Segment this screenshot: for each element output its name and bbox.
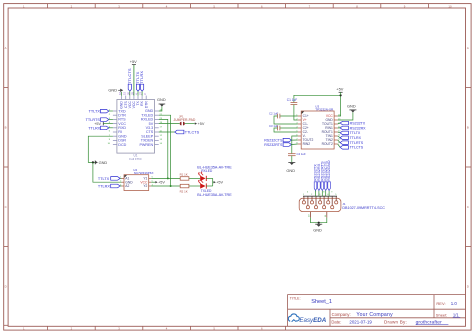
capacitor C4 + ground — [286, 136, 306, 173]
junction dots — [167, 177, 169, 179]
row1 wire (RXLED) — [151, 177, 180, 179]
svg-text:DB1027-09MRRTT4-SCC: DB1027-09MRRTT4-SCC — [342, 206, 385, 210]
svg-text:10: 10 — [448, 4, 452, 8]
svg-text:D: D — [5, 285, 7, 289]
svg-text:GND: GND — [108, 88, 117, 93]
wire U1 GND to ground — [88, 136, 113, 162]
net flag RS232TX (vertical) — [313, 164, 318, 191]
svg-text:PWREN: PWREN — [139, 143, 153, 147]
net flag TTLRX (to U2 A2) — [98, 184, 122, 188]
connector J1 body — [299, 198, 385, 211]
svg-text:Company:: Company: — [332, 312, 351, 317]
junction — [92, 161, 94, 163]
svg-text:TTLTX: TTLTX — [89, 110, 101, 114]
svg-text:TTLCTS: TTLCTS — [127, 68, 132, 84]
join + +5V — [213, 178, 224, 186]
svg-text:Your Company: Your Company — [356, 312, 393, 318]
net flag RS232RX — [340, 126, 366, 130]
svg-text:D: D — [467, 285, 469, 289]
svg-text:A2: A2 — [125, 184, 129, 188]
DB9 vertical net flags — [316, 190, 330, 196]
connector pin stubs — [304, 196, 336, 205]
U3 right net flags — [338, 123, 340, 147]
capacitor C3 — [269, 124, 298, 132]
svg-text:TTLRX: TTLRX — [139, 71, 144, 84]
svg-text:Date:: Date: — [331, 319, 341, 324]
capacitor C2 — [269, 112, 298, 124]
svg-text:RS232CTS: RS232CTS — [264, 138, 283, 142]
svg-text:Sheet:: Sheet: — [436, 313, 448, 318]
svg-text:B: B — [5, 126, 7, 130]
svg-text:TTLRX: TTLRX — [88, 126, 100, 130]
svg-text:RXLED: RXLED — [201, 169, 213, 173]
shield pins 10/11 — [309, 212, 327, 233]
svg-text:Y2: Y2 — [143, 184, 147, 188]
svg-text:1/1: 1/1 — [453, 313, 459, 318]
svg-text:C4 1uF: C4 1uF — [297, 152, 306, 156]
net flag TTLTX (left) — [89, 109, 113, 113]
net flag TTLRTS (left) — [86, 118, 113, 122]
net flag TTLRX — [340, 136, 361, 140]
svg-text:+5V: +5V — [158, 181, 165, 185]
wire RXLED down — [159, 119, 168, 178]
svg-text:TTLTX: TTLTX — [350, 131, 361, 135]
net flag RS232CTS — [264, 138, 297, 142]
svg-text:REV:: REV: — [436, 301, 445, 306]
U1 left pin stubs — [113, 111, 117, 145]
svg-text:DCD: DCD — [118, 143, 126, 147]
svg-text:2021-07-19: 2021-07-19 — [349, 319, 372, 324]
net flag TTLRTS — [340, 141, 364, 145]
GND at U1 right pin1 — [157, 97, 166, 111]
resistor R2 — [180, 184, 189, 193]
svg-text:ROUT2: ROUT2 — [322, 142, 333, 146]
ground symbol left — [95, 160, 107, 165]
net flag RS232CTS (vertical) — [323, 161, 328, 190]
frame ticks left/right — [4, 88, 471, 326]
svg-text:C: C — [5, 205, 7, 209]
IC U3 — [296, 104, 341, 149]
net flag RS232TX — [340, 121, 366, 125]
+5V at U2 VCC — [151, 181, 165, 185]
net flag RS232RTS (vertical) — [319, 161, 324, 190]
svg-text:B: B — [467, 126, 469, 130]
IC U2 — [120, 168, 153, 191]
IC U1 Full FTDI — [117, 100, 155, 161]
U1 pin names left — [118, 109, 127, 146]
+5V power at U1 VCC left — [94, 122, 113, 126]
net flag TTLRX (top, vertical) — [139, 71, 144, 96]
svg-text:R1 1K: R1 1K — [180, 173, 188, 177]
svg-text:TTLRX: TTLRX — [98, 185, 110, 189]
EasyEDA logo — [288, 314, 326, 324]
wire TXLED down — [159, 115, 171, 186]
pin-end row — [303, 195, 337, 197]
svg-text:GND: GND — [99, 160, 108, 165]
svg-text:NC7WZ16P6X: NC7WZ16P6X — [134, 171, 154, 175]
LED TXLED — [198, 179, 213, 189]
GND at U3 right — [338, 104, 357, 120]
svg-text:RIN2: RIN2 — [303, 142, 311, 146]
svg-text:C: C — [467, 205, 469, 209]
LED RXLED — [198, 171, 213, 181]
svg-text:RS232TX: RS232TX — [350, 121, 366, 125]
title block — [288, 295, 466, 327]
+5V rail to U3 VCC — [294, 86, 344, 116]
svg-text:+5V: +5V — [216, 181, 223, 185]
svg-text:Drawn By:: Drawn By: — [384, 320, 407, 325]
svg-text:C1 1uF: C1 1uF — [287, 98, 298, 102]
svg-text:BL-HUE35A-AV-TRE: BL-HUE35A-AV-TRE — [197, 193, 232, 197]
svg-text:1.0: 1.0 — [451, 301, 458, 306]
net flag RS232RX (vertical) — [316, 163, 321, 190]
svg-text:RS232GND: RS232GND — [326, 160, 331, 181]
svg-text:TTLCTS: TTLCTS — [350, 146, 364, 150]
row2 wire (TXLED) — [151, 185, 180, 187]
net flag TTLTX (to U2 A1) — [98, 177, 122, 181]
svg-text:+5V: +5V — [336, 86, 343, 91]
svg-text:TP3232N-SR: TP3232N-SR — [315, 107, 334, 111]
GND at U1 top-left — [108, 88, 123, 96]
svg-text:A: A — [467, 46, 469, 50]
svg-text:R2 1K: R2 1K — [180, 189, 188, 193]
net flag TTLCTS (top, vertical) — [127, 68, 132, 96]
svg-text:A: A — [5, 46, 7, 50]
wire U2 GND up to ground net — [93, 162, 122, 182]
svg-text:Full FTDI: Full FTDI — [129, 157, 141, 161]
svg-text:GND: GND — [286, 168, 295, 173]
svg-text:TTLRTS: TTLRTS — [350, 141, 364, 145]
net flag GND (vertical) — [326, 160, 331, 190]
+5V power at U1 top — [132, 65, 136, 96]
net flag TTLCTS (right of U1) — [159, 130, 200, 134]
svg-text:DTR: DTR — [144, 101, 148, 109]
svg-text:TITLE:: TITLE: — [290, 297, 301, 301]
net flag TTLTX — [340, 131, 361, 135]
svg-text:RS232RX: RS232RX — [350, 126, 367, 130]
net flag TTLRX (left) — [88, 126, 113, 130]
svg-text:C2 1uF: C2 1uF — [269, 112, 278, 116]
U1 top pin stubs — [122, 96, 147, 100]
svg-text:GND: GND — [157, 97, 166, 102]
svg-text:GND: GND — [313, 228, 322, 233]
svg-text:TTLRX: TTLRX — [350, 136, 362, 140]
svg-text:TTLTX: TTLTX — [98, 177, 110, 181]
net flag RS232RTS — [264, 143, 297, 147]
resistor R1 — [180, 173, 189, 181]
svg-text:EasyEDA: EasyEDA — [299, 317, 326, 324]
svg-text:C3 1uF: C3 1uF — [269, 124, 278, 128]
frame ticks top/bottom — [48, 4, 429, 331]
svg-text:GND: GND — [347, 104, 356, 109]
U1 pin numbers — [118, 91, 147, 95]
svg-text:+5V: +5V — [198, 122, 205, 126]
net flag TTLTX (top, vertical) — [135, 71, 140, 95]
net flag TTLCTS — [340, 146, 364, 150]
U1 pin names right — [139, 109, 153, 147]
U1 pin names top (vertical) — [120, 100, 149, 108]
svg-text:TTLCTS: TTLCTS — [185, 131, 200, 135]
svg-text:RS232RTS: RS232RTS — [264, 143, 283, 147]
jumper pad JP1 on 5V pin — [159, 114, 205, 126]
capacitor C1 — [287, 98, 298, 120]
svg-text:JUMPER-PAD: JUMPER-PAD — [174, 118, 196, 122]
U1 right pin stubs — [155, 111, 159, 145]
svg-text:+5V: +5V — [130, 59, 137, 64]
svg-text:Sheet_1: Sheet_1 — [311, 299, 332, 305]
